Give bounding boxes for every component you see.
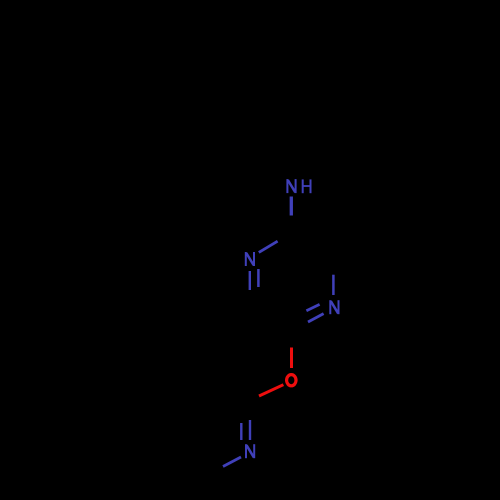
bond C3-O (ether link, oxygen-colored half) — [290, 348, 293, 369]
bond C3=N4 double bond main line (nitrogen-colored half) — [308, 314, 324, 322]
atom label H of NH (amine hydrogen) — [303, 179, 311, 193]
bond O-C2' (ether link to pyridine, oxygen-colored half) — [259, 385, 283, 396]
atom label N1 (pyrazine nitrogen, upper left) — [246, 252, 254, 266]
bond N1=C6 double bond inner line (nitrogen-colored half) — [257, 269, 260, 287]
bond C2-N1 (pyrazine single bond, nitrogen-colored half) — [259, 241, 278, 252]
bond N4-C5 (pyrazine single bond, nitrogen-colored half) — [332, 275, 335, 295]
atom label N4 (pyrazine nitrogen, lower right) — [330, 300, 338, 314]
bond C3=N4 double bond inner line (nitrogen-colored half) — [306, 304, 319, 310]
bond N1'-C6' (pyridine single bond, nitrogen-colored half) — [223, 457, 241, 467]
bond N1'=C2' pyridine double bond inner line (nitrogen-colored half) — [240, 423, 242, 440]
bond N1=C6 double bond main line (nitrogen-colored half) — [249, 271, 251, 290]
bond N1'=C2' pyridine double bond main line (nitrogen-colored half) — [249, 420, 251, 440]
bond NH-C2 (amine N to pyrazine C2, nitrogen-colored half) — [290, 197, 293, 216]
atom label N1' (pyridine nitrogen) — [246, 444, 254, 458]
atom label O (ether oxygen, drawn as ring) — [287, 375, 296, 386]
atom label N of NH (secondary amine nitrogen) — [287, 179, 295, 193]
